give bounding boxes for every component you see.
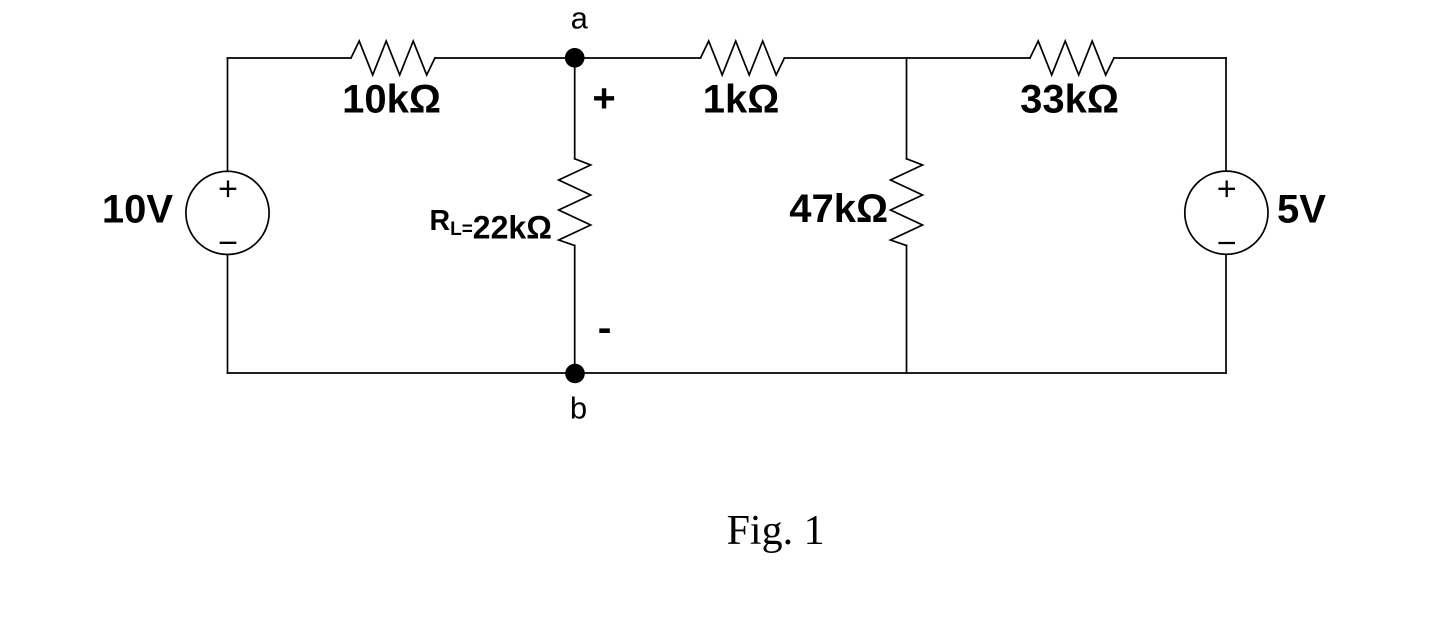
V2 minus sign [1218,242,1235,244]
wire R3 to bottom rail junction [906,246,908,374]
svg-text:33kΩ: 33kΩ [1020,78,1119,122]
wire left branch bottom (V1 to bottom rail) [227,255,229,373]
svg-text:10V: 10V [102,188,173,232]
wire top rail: node a to R2 [575,57,701,59]
node a junction dot [565,48,585,68]
wire right branch bottom (V2 to bottom rail) [1225,254,1227,373]
svg-text:1kΩ: 1kΩ [703,77,780,121]
svg-text:5V: 5V [1277,188,1326,232]
node b junction dot [565,364,585,384]
resistor R2 1kΩ zigzag [701,41,785,75]
wire right branch top (top rail to V2) [1225,58,1227,171]
voltage source V1 10V circle [186,171,269,254]
svg-text:Fig. 1: Fig. 1 [727,508,825,554]
wire top rail: R4 to right corner [1114,57,1226,59]
resistor RL 22kΩ vertical zigzag [559,159,591,246]
resistor R3 47kΩ vertical zigzag [891,159,923,246]
svg-text:47kΩ: 47kΩ [789,187,888,231]
voltage source V2 5V circle [1185,171,1268,254]
svg-text:+: + [592,77,615,121]
V2 plus sign [1218,188,1235,190]
wire RL to node b [574,246,576,374]
wire bottom rail [228,372,1227,374]
label - polarity at node b [599,328,610,333]
svg-text:10kΩ: 10kΩ [342,78,441,122]
wire node a to RL [574,58,576,159]
wire top rail: corner to R1 [228,57,352,59]
wire top rail: R2 to R4 (through 47k branch junction) [784,57,1030,59]
wire left branch top (V1 to top rail) [227,58,229,171]
V1 plus sign [220,188,237,190]
svg-text:b: b [570,390,587,425]
V1 minus sign [220,242,237,244]
wire top rail: R1 to node a [435,57,575,59]
wire top rail junction down to R3 47kΩ [906,58,908,159]
svg-text:a: a [571,1,589,36]
resistor R4 33kΩ zigzag [1030,41,1114,75]
resistor R1 10kΩ zigzag [351,41,435,75]
